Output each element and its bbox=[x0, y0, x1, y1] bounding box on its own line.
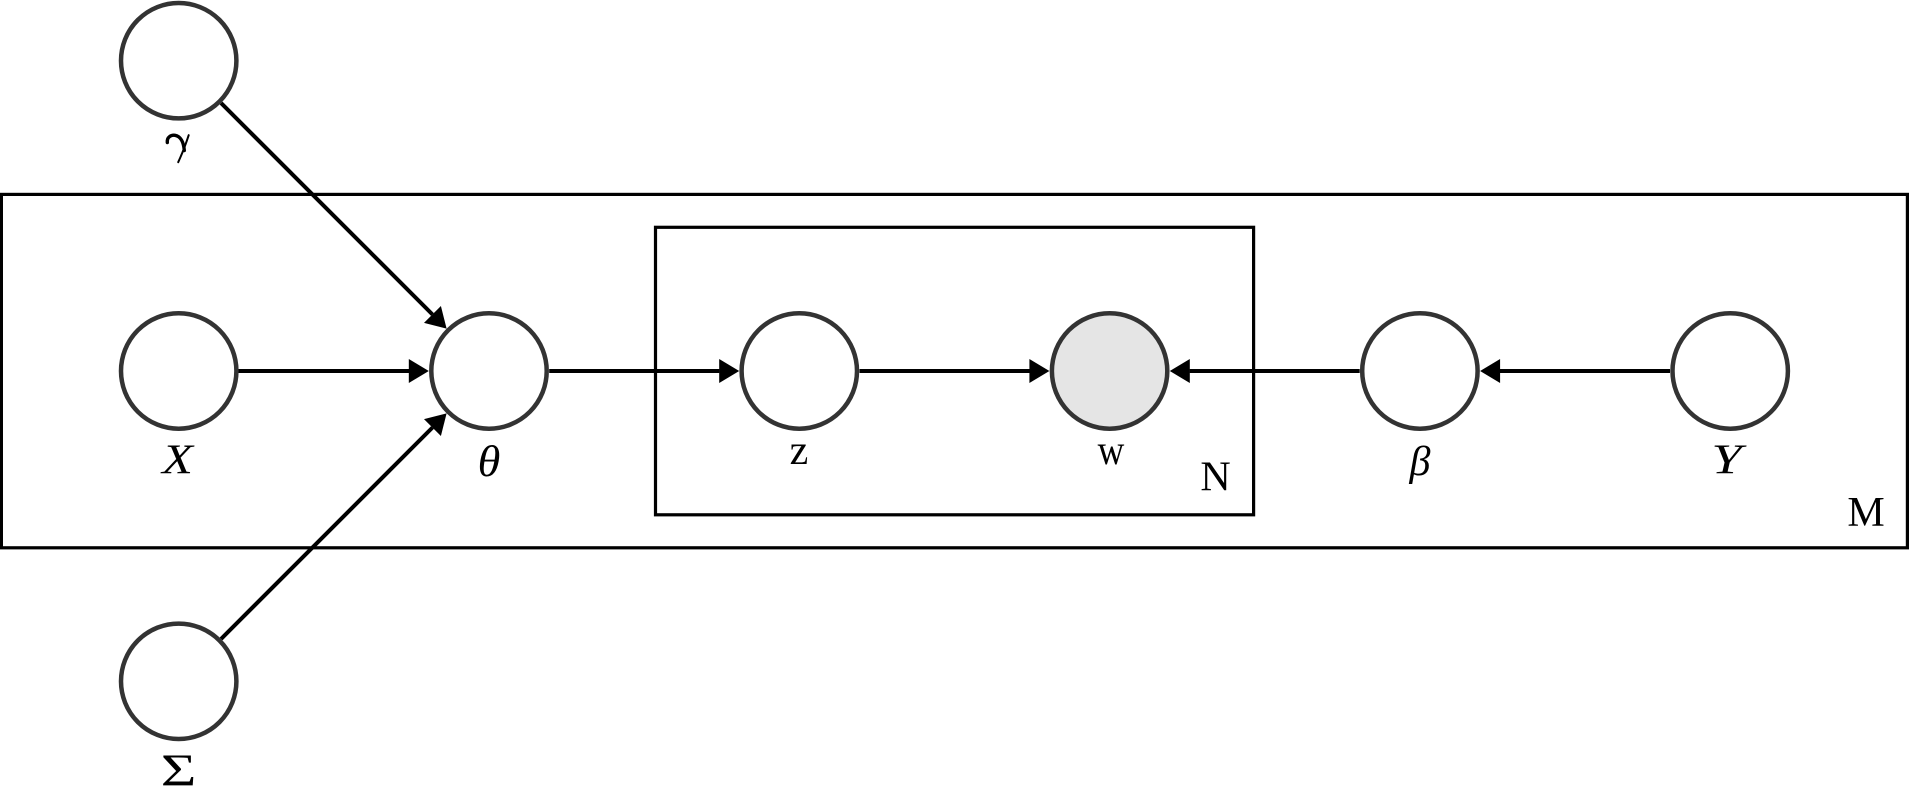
arrowhead into theta from X bbox=[409, 359, 429, 383]
arrowhead into theta from Sigma bbox=[424, 413, 447, 436]
wire z to w bbox=[860, 369, 1030, 373]
wire Y to beta bbox=[1500, 369, 1670, 373]
svg-text:Σ: Σ bbox=[161, 745, 197, 796]
plate M bbox=[1, 194, 1907, 547]
node gamma bbox=[121, 3, 236, 118]
wire gamma to theta bbox=[221, 103, 432, 314]
arrowhead into theta from gamma bbox=[424, 306, 447, 329]
svg-text:z: z bbox=[790, 428, 809, 474]
node Sigma bbox=[121, 624, 236, 739]
wire Sigma to theta bbox=[221, 428, 432, 639]
wire X to theta bbox=[239, 369, 410, 373]
node z bbox=[742, 313, 857, 428]
arrowhead into w from beta bbox=[1170, 359, 1190, 383]
svg-text:X: X bbox=[160, 437, 195, 483]
node theta bbox=[431, 313, 546, 428]
arrowhead into beta from Y bbox=[1480, 359, 1500, 383]
node gamma label bbox=[167, 135, 188, 162]
svg-text:β: β bbox=[1409, 439, 1431, 485]
node Y bbox=[1673, 313, 1788, 428]
node w (observed, shaded) bbox=[1052, 313, 1167, 428]
svg-text:w: w bbox=[1098, 427, 1125, 474]
arrowhead into w bbox=[1029, 359, 1049, 383]
svg-text:M: M bbox=[1847, 490, 1884, 536]
wire beta to w bbox=[1190, 369, 1360, 373]
svg-text:Y: Y bbox=[1711, 436, 1747, 483]
svg-text:N: N bbox=[1200, 454, 1230, 500]
arrowhead into z bbox=[719, 359, 739, 383]
wire theta to z bbox=[549, 369, 719, 373]
node X bbox=[121, 313, 236, 428]
plate N bbox=[656, 227, 1254, 515]
node beta bbox=[1362, 313, 1477, 428]
svg-text:θ: θ bbox=[478, 437, 501, 486]
